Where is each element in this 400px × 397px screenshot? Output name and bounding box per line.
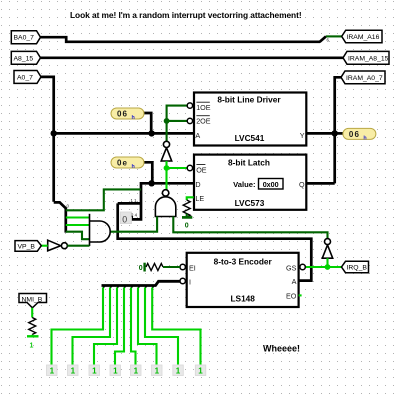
svg-text:A: A [195, 131, 200, 140]
splitter legs bottom bus [103, 285, 154, 288]
tunnel IRAM_A0_7 [341, 71, 385, 84]
wire fan net3 [94, 288, 117, 365]
svg-text:Wheeee!: Wheeee! [263, 344, 300, 354]
svg-text:GS: GS [286, 264, 297, 273]
node J1 on D wire [148, 180, 154, 186]
node 06 constant tap [148, 130, 154, 136]
pin 1OE label [196, 101, 209, 103]
tunnel IRAM_A16 [342, 30, 382, 43]
wire A bus to driver A pin [54, 132, 194, 135]
wire splitter b4 step (dark green) [66, 232, 90, 240]
wire 0e constant leg [144, 162, 152, 183]
wire fan net5 [131, 288, 136, 365]
svg-text:BA0_7: BA0_7 [14, 35, 35, 42]
ground-0 tie bar [182, 216, 192, 219]
svg-text:IRQ_B: IRQ_B [347, 265, 368, 272]
wire D-pin bus W2 [132, 183, 194, 219]
svg-text:LE: LE [195, 194, 204, 203]
IC U2 8-bit Latch LVC573 [187, 155, 306, 210]
svg-text:IRAM_A0_7: IRAM_A0_7 [346, 75, 383, 82]
svg-text:0: 0 [185, 223, 189, 230]
pin bubble EI [180, 264, 185, 269]
wire fan net4 [115, 288, 124, 365]
svg-text:2 4: 2 4 [131, 212, 138, 217]
tunnel IRAM_A8_15 [343, 51, 389, 64]
wire 1OE chain (dark green) [167, 106, 188, 142]
svg-text:1: 1 [198, 367, 203, 376]
svg-text:0e: 0e [117, 159, 128, 168]
svg-text:A: A [292, 277, 297, 286]
wire IRAM_A16 link (dark green) [326, 35, 342, 37]
svg-text:Look at me! I'm a random inter: Look at me! I'm a random interrupt vecto… [70, 10, 302, 20]
wire splitter b1 (dark green) [66, 189, 141, 210]
svg-text:h: h [363, 135, 366, 141]
pin 2OE label [196, 115, 209, 117]
svg-text:OE: OE [196, 166, 207, 175]
svg-text:LVC541: LVC541 [235, 133, 265, 143]
wire splitter b3 (bright) [66, 224, 90, 226]
IC U3 8-to-3 Encoder LS148 [180, 253, 305, 307]
svg-text:A8_15: A8_15 [14, 55, 34, 62]
pin EO stub (bright) [299, 294, 302, 296]
tunnel VP_B [15, 241, 41, 252]
resistor R-LE pulldown [182, 197, 194, 229]
svg-text:1: 1 [113, 367, 118, 376]
resistor R-NMI pullup [27, 308, 39, 350]
svg-text:0: 0 [122, 215, 127, 225]
svg-text:Q: Q [299, 180, 305, 189]
input pin boxes value 1 (x8) [47, 365, 206, 376]
NAND gate U-shape with top bubble [155, 190, 175, 217]
wire A0_7 bus: down left side [41, 77, 54, 202]
pin bubble 1OE [187, 103, 192, 108]
svg-text:8-bit Line Driver: 8-bit Line Driver [217, 95, 281, 105]
svg-text:IRAM_A8_15: IRAM_A8_15 [348, 55, 389, 62]
node Y junction [332, 130, 338, 136]
wire bottom bus to I pin [102, 281, 181, 285]
svg-text:1 1: 1 1 [131, 198, 138, 203]
tunnel NMI_B (pointing down) [19, 294, 47, 308]
svg-text:1: 1 [71, 367, 76, 376]
tunnel A0_7 [14, 71, 41, 84]
wire GS to IRQ_B (bright) [305, 266, 342, 268]
IC U1 8-bit Line Driver LVC541 [187, 93, 306, 146]
resistor R-EI with 0 tie [139, 263, 180, 272]
wire junction to OE bubble [167, 167, 188, 169]
wire inverter base to GS junction (bright) [326, 258, 328, 267]
svg-text:A0_7: A0_7 [17, 74, 33, 81]
IRQ inverter chain [322, 239, 332, 259]
wire Q output [306, 182, 334, 185]
node 2OE branch dot [164, 118, 170, 124]
svg-text:1: 1 [92, 367, 97, 376]
splitter to IRAM_A16 (diagonal) [320, 36, 327, 42]
wire NAND right input from IRQ inverter [173, 217, 327, 239]
wire A8_15 to IRAM_A8_15 (bus) [41, 56, 344, 59]
svg-text:06: 06 [349, 130, 360, 139]
wire fan net1 [52, 288, 104, 365]
svg-text:8-to-3 Encoder: 8-to-3 Encoder [214, 256, 273, 266]
wire fan net7 [145, 288, 178, 365]
svg-text:8-bit Latch: 8-bit Latch [228, 157, 270, 167]
svg-text:Value:: Value: [233, 180, 255, 189]
AND gate 4-input [90, 214, 111, 246]
svg-text:I: I [189, 278, 191, 287]
wire OE junction net (bright) [165, 161, 167, 190]
svg-text:VP_B: VP_B [18, 244, 36, 251]
wire 2OE branch [167, 120, 188, 122]
svg-text:h: h [132, 115, 135, 121]
wire splitter b2 (bright) [66, 216, 90, 218]
svg-text:NMI_B: NMI_B [22, 296, 43, 303]
pin bubble I [180, 278, 185, 283]
wire NAND left input from AND output [110, 217, 157, 232]
svg-text:1: 1 [50, 367, 55, 376]
svg-text:1: 1 [155, 367, 160, 376]
svg-text:1: 1 [134, 367, 139, 376]
svg-text:0: 0 [139, 265, 143, 272]
pin bubble OE [187, 165, 192, 170]
wire VP_B to inverter (bright) [41, 245, 47, 247]
node OE junction [164, 165, 170, 171]
inverter chain up (bubble+triangle) [161, 141, 172, 161]
tunnel A8_15 [11, 51, 40, 64]
logic-1 tie bar [27, 335, 39, 337]
pin OE label [196, 164, 205, 166]
wire VP inverter out to AND (dark) [67, 245, 89, 247]
svg-text:0x00: 0x00 [263, 180, 279, 189]
wire fan net2 [73, 288, 111, 365]
value box 0x00 [259, 179, 284, 190]
pin bubble GS [300, 264, 305, 269]
wire BA0_7 to splitter (bus) [41, 37, 321, 42]
wire fan net6 [138, 288, 157, 365]
pin bubble 2OE [187, 118, 192, 123]
node A-bus tap [51, 130, 57, 136]
wire W5 + E bus to encoder A [118, 203, 312, 280]
svg-text:EI: EI [189, 264, 196, 273]
svg-text:1: 1 [176, 367, 181, 376]
wire W4 horizontal [118, 202, 141, 205]
svg-text:EO: EO [286, 291, 297, 300]
svg-text:IRAM_A16: IRAM_A16 [347, 34, 380, 41]
wire Y output [306, 132, 334, 135]
svg-text:LS148: LS148 [230, 293, 255, 303]
svg-text:1OE: 1OE [196, 103, 211, 112]
wire 06 constant to A-bus [144, 113, 151, 133]
splitter A0_7 elbow+diagonal+spine [54, 202, 66, 232]
svg-text:1: 1 [30, 343, 34, 350]
svg-text:06: 06 [117, 110, 128, 119]
constant oval 06h right [343, 128, 376, 141]
probe 0 box [120, 212, 131, 225]
inverter VP_B [48, 240, 68, 251]
tunnel BA0_7 [11, 31, 40, 44]
constant oval 0eh [111, 157, 144, 170]
wire junction to 06 oval [335, 132, 344, 135]
svg-text:2OE: 2OE [196, 117, 211, 126]
wire IRAM_A0_7 down to Y/Q (bus) [335, 77, 341, 183]
constant oval 06h top [111, 108, 144, 121]
svg-text:h: h [132, 164, 135, 170]
svg-text:Y: Y [300, 131, 305, 140]
svg-text:LVC573: LVC573 [235, 198, 265, 208]
svg-text:D: D [195, 180, 200, 189]
wire fan net8 [152, 288, 200, 365]
tunnel IRQ_B [342, 261, 369, 272]
node IRQ junction [325, 264, 331, 270]
